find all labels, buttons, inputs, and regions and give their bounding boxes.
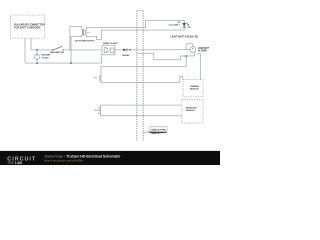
wire xyxy=(24,38,26,63)
svg-text:LED POWER SUPPLY: LED POWER SUPPLY xyxy=(75,41,96,43)
svg-text:WIRELESS: WIRELESS xyxy=(186,108,197,110)
wire xyxy=(127,49,190,51)
bulkhead partition dashed top xyxy=(137,10,143,12)
footer CircuitLab logo xyxy=(7,157,36,165)
svg-text:MODULE: MODULE xyxy=(186,110,196,112)
junction dots xyxy=(36,49,187,64)
svg-text:CTL LEVEL?: CTL LEVEL? xyxy=(169,25,181,27)
footer bar xyxy=(0,151,220,165)
wire xyxy=(194,53,196,56)
bulkhead charging connector J1 dashed box xyxy=(10,15,45,38)
svg-text:LABEL SLP PWR: LABEL SLP PWR xyxy=(151,129,166,132)
wire flag leader xyxy=(143,131,150,133)
svg-text:ALARM?: ALARM? xyxy=(198,50,208,53)
connector plug P2 on accessory box xyxy=(94,107,101,114)
wire xyxy=(36,50,38,54)
wire xyxy=(87,20,185,29)
wire xyxy=(31,49,52,51)
wire alarm top feed xyxy=(186,44,193,50)
wire xyxy=(87,27,185,40)
svg-text:LAB: LAB xyxy=(15,161,23,165)
diode D1 xyxy=(123,48,127,51)
svg-text:1N4148?: 1N4148? xyxy=(122,54,131,57)
svg-text:LIGHT BAR? 6 BULB LED: LIGHT BAR? 6 BULB LED xyxy=(171,35,199,38)
svg-text:MODULE: MODULE xyxy=(190,88,200,90)
lower accessory box M2 xyxy=(101,105,182,116)
connector box J2 wired-to-bus xyxy=(102,45,115,55)
wireless module dashed box xyxy=(182,99,203,123)
label flag SLP PWR xyxy=(148,127,168,134)
svg-text:http://circuitlab.com/c9b45fb: http://circuitlab.com/c9b45fb xyxy=(45,159,84,163)
bulkhead partition dashed line right xyxy=(142,11,144,141)
wire xyxy=(71,35,82,63)
svg-text:9V 4AH: 9V 4AH xyxy=(42,56,49,59)
wire xyxy=(36,60,38,64)
alarm polarity marks xyxy=(192,48,193,51)
svg-text:FOR BATT CHARGING: FOR BATT CHARGING xyxy=(14,25,40,29)
wire xyxy=(115,49,123,51)
LED D2 xyxy=(182,23,190,28)
wire alarm return xyxy=(186,56,194,66)
wire xyxy=(30,38,32,50)
switch SW1 xyxy=(53,46,63,50)
connector plug P1 on module box xyxy=(94,75,101,81)
wire transformer center tap xyxy=(87,31,90,33)
schematic text labels xyxy=(14,22,210,131)
wire xyxy=(63,49,102,51)
bulkhead partition dashed line left xyxy=(136,11,138,141)
module bus box M1 xyxy=(101,66,186,82)
camera module dashed box xyxy=(183,80,203,97)
svg-text:MAIN BATT SW: MAIN BATT SW xyxy=(50,51,64,54)
wire camera feed xyxy=(198,53,201,79)
battery BAT1 xyxy=(34,54,40,60)
transformer T1 xyxy=(82,29,87,36)
wire ground rail xyxy=(25,55,102,63)
battery polarity marks xyxy=(36,55,37,58)
wire y53 branch xyxy=(137,53,186,60)
wire xyxy=(70,27,82,50)
svg-text:WIRED TO BUS?: WIRED TO BUS? xyxy=(103,43,119,45)
alarm LS1 low-batt buzzer xyxy=(190,47,196,53)
